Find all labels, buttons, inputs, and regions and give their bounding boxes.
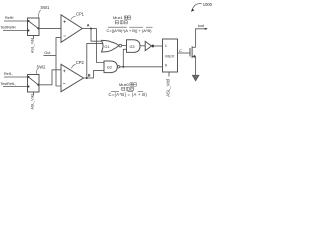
op-amp CP2 bbox=[61, 64, 84, 91]
leader SW2 bbox=[36, 69, 39, 74]
label Mux1 formula bbox=[107, 27, 153, 33]
arrow Iout bbox=[205, 28, 208, 30]
label Mux1 case line1 bbox=[113, 15, 131, 20]
svg-text:C=[(A*B)*(A + B)] + (A*B): C=[(A*B)*(A + B)] + (A*B) bbox=[107, 28, 153, 33]
wire CP2 output to node B bbox=[84, 77, 94, 79]
wire SW2 to CP2 bbox=[39, 70, 61, 85]
svg-text:RefH: RefH bbox=[5, 16, 14, 20]
svg-text:G1: G1 bbox=[104, 45, 109, 49]
ground bbox=[192, 75, 199, 81]
wire B to G2 input bbox=[94, 70, 104, 78]
svg-text:MUX: MUX bbox=[165, 54, 174, 59]
svg-text:Out: Out bbox=[44, 51, 51, 55]
buffer U1 bbox=[145, 41, 154, 50]
wire G3 to buffer bbox=[140, 45, 145, 47]
wire A to G1 input bbox=[91, 29, 104, 42]
leader CP2 bbox=[71, 64, 75, 68]
op-amp CP1 bbox=[61, 15, 82, 43]
svg-text:RefL,: RefL, bbox=[4, 72, 13, 76]
wire MUX select stub bbox=[168, 72, 170, 77]
wire A to G2 input bbox=[97, 29, 105, 63]
svg-text:ASL_Vdd: ASL_Vdd bbox=[31, 38, 35, 53]
wire RefH lead bbox=[4, 20, 28, 22]
switch SW1 bbox=[28, 18, 40, 36]
node B bbox=[86, 77, 88, 79]
wire SW1 control stub bbox=[33, 36, 35, 39]
svg-text:Mux1: Mux1 bbox=[113, 15, 124, 20]
figure reference 1000 leader arrow bbox=[191, 4, 202, 12]
label Mux0 case line1 bbox=[119, 82, 136, 87]
wire G2 output bbox=[120, 66, 163, 68]
multiplexer MUX bbox=[163, 39, 178, 72]
svg-text:B: B bbox=[88, 74, 91, 78]
label Mux1 case line2 bbox=[115, 21, 127, 24]
gate G2 (NAND) bbox=[104, 61, 120, 73]
wire B to G1 input bbox=[87, 44, 104, 78]
wire G1 to G3 bbox=[122, 45, 127, 47]
label Mux0 case line2 bbox=[122, 87, 134, 90]
wire MUX output C to transistor gate bbox=[178, 52, 191, 54]
wire RefL lead bbox=[4, 76, 28, 78]
wire SW2 control stub bbox=[33, 92, 35, 95]
svg-text:SW1: SW1 bbox=[40, 5, 50, 10]
wire Out vertical rail bbox=[56, 38, 61, 86]
node G2 branch bbox=[122, 66, 124, 68]
svg-text:CP1: CP1 bbox=[76, 12, 85, 17]
leader SW1 bbox=[39, 10, 41, 18]
svg-text:TestRefL,: TestRefL, bbox=[0, 82, 16, 86]
wire G2 to G3 input bbox=[123, 49, 126, 67]
transistor M1 (NMOS) bbox=[190, 46, 196, 58]
label Mux0 formula bbox=[109, 91, 148, 97]
svg-text:TestRefH: TestRefH bbox=[0, 26, 15, 30]
gate G1 (NOR) bbox=[102, 40, 122, 52]
wire CP1 output to node A bbox=[82, 28, 96, 30]
svg-text:ASL_Vdd: ASL_Vdd bbox=[165, 78, 170, 96]
wire source to ground bbox=[195, 56, 197, 75]
leader CP1 bbox=[71, 16, 76, 20]
svg-text:Mux0: Mux0 bbox=[119, 82, 130, 87]
svg-text:1000: 1000 bbox=[203, 2, 213, 7]
svg-text:C: C bbox=[179, 48, 182, 53]
wire drain to Iout bbox=[196, 29, 207, 48]
svg-text:ASL_Vdd: ASL_Vdd bbox=[31, 94, 35, 109]
wire SW1 to CP1 bbox=[39, 27, 61, 29]
switch SW2 bbox=[28, 75, 40, 93]
wire buffer to MUX input 1 bbox=[154, 45, 163, 47]
wire TestRefH lead bbox=[3, 30, 28, 32]
svg-text:CP2: CP2 bbox=[76, 60, 85, 65]
svg-text:SW2: SW2 bbox=[37, 64, 47, 69]
svg-text:C=[A*B] = (A + B): C=[A*B] = (A + B) bbox=[109, 92, 148, 97]
svg-text:Iout: Iout bbox=[198, 23, 205, 28]
node A bbox=[90, 28, 92, 30]
gate G3 (AND) bbox=[127, 40, 141, 53]
svg-text:G3: G3 bbox=[129, 45, 134, 49]
wire TestRefL lead bbox=[3, 86, 28, 88]
svg-text:G2: G2 bbox=[107, 66, 112, 70]
svg-text:A: A bbox=[87, 24, 90, 28]
wire Out lead bbox=[44, 55, 57, 57]
